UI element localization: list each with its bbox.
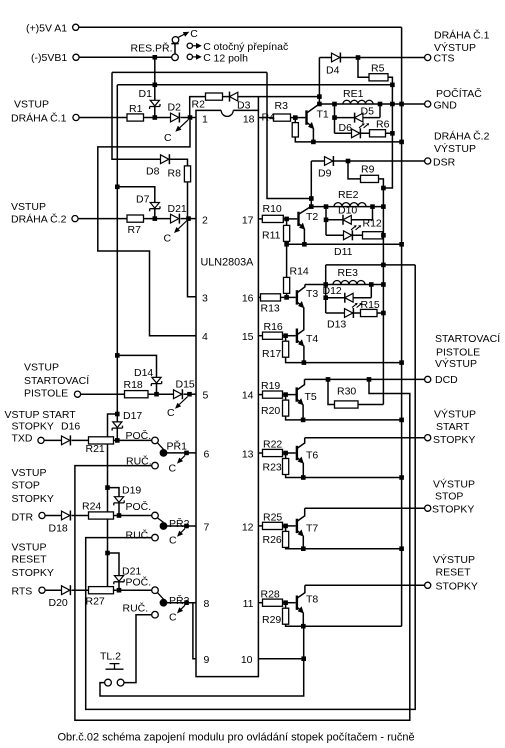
wire T8 emitter down (302, 613, 304, 627)
svg-text:DRÁHA Č.2: DRÁHA Č.2 (11, 213, 67, 226)
wire R4 bottom to emitter row (295, 137, 401, 142)
svg-text:D18: D18 (49, 523, 68, 535)
wire DSR output line (311, 160, 424, 162)
switch PR3 contact RUC (152, 611, 159, 618)
diode D10 (342, 215, 344, 225)
wire D8 branch from C-bus (112, 72, 161, 159)
svg-text:R26: R26 (263, 534, 282, 546)
svg-text:C: C (169, 535, 177, 547)
resistor R2 (206, 93, 223, 100)
terminal circle (+)5V A1 (73, 24, 79, 30)
resistor R17 (283, 341, 289, 357)
svg-text:14: 14 (242, 390, 254, 402)
node T5 emitter / row (301, 418, 306, 423)
wire D18 to R24 (72, 515, 89, 517)
node R22/R23 junction (283, 451, 288, 456)
wire R5 drop (358, 58, 369, 78)
node T2 collector / feedback bus (309, 196, 314, 201)
rotary switch arrow 1 (193, 45, 197, 47)
diode D16 (62, 436, 70, 445)
zener diode D21 (input row 8) (114, 576, 123, 582)
diode D2 (171, 113, 179, 122)
node D17 anode junction (115, 438, 120, 443)
wire T7 emitter down (302, 536, 304, 549)
terminal VSTUP DRAHA C.2 (72, 216, 78, 222)
svg-text:5: 5 (203, 390, 209, 402)
svg-text:STOP: STOP (435, 490, 463, 502)
svg-text:R18: R18 (124, 379, 143, 391)
node junction (-)5V / D1 branch (153, 55, 158, 60)
svg-text:STOP: STOP (12, 480, 40, 492)
svg-text:R19: R19 (261, 380, 280, 392)
transistor T1 collector (307, 105, 320, 113)
svg-text:1: 1 (202, 113, 208, 125)
svg-text:T4: T4 (306, 333, 318, 345)
node R25/R26 junction (283, 524, 288, 529)
diode D12 (344, 293, 346, 303)
wire R9 to bus x=383.4 (379, 179, 384, 405)
wire R17 top (285, 336, 287, 342)
resistor R24 (89, 512, 114, 519)
IC U1 notch (221, 110, 233, 116)
wire line A (C-bus top horizontal) (117, 84, 392, 86)
node pin10 junction (301, 656, 306, 661)
wire pin 12 row (258, 525, 262, 527)
node pin8 junction (184, 600, 189, 605)
wire R26 top (285, 526, 287, 532)
wire R17 bottom to emitter row (286, 357, 402, 362)
svg-text:D6: D6 (339, 122, 353, 134)
node RE3 coil left (323, 282, 328, 287)
wire R23 bottom to emitter row (286, 475, 402, 478)
svg-text:D20: D20 (49, 597, 68, 609)
wire PR2 common to pin 7 (164, 525, 197, 527)
svg-text:15: 15 (242, 331, 254, 343)
resistor R10 (262, 215, 283, 222)
svg-text:D17: D17 (123, 410, 142, 422)
terminal DCD (425, 376, 431, 382)
node T1 emitter / row (311, 140, 316, 145)
svg-text:VSTUP: VSTUP (12, 541, 47, 553)
wire R29 top (285, 603, 287, 609)
node R28/R29 junction (283, 600, 288, 605)
resistor R9 (361, 175, 379, 182)
terminal circle (-)5VB1 (73, 54, 79, 60)
switch PR1 contact POC (152, 437, 159, 444)
resistor R4 (292, 123, 298, 137)
wire D19 top jog (108, 488, 120, 497)
node D19 anode junction (117, 513, 122, 518)
wire RE1 right stub (D5 return) (379, 104, 381, 118)
node collector bus / D3 line (317, 94, 322, 99)
svg-text:D1: D1 (139, 88, 153, 100)
wire pin1-node route to pin 4 (98, 120, 196, 336)
wire STOP output line (305, 507, 425, 509)
transistor T7 collector (297, 508, 305, 521)
wire D10 row (326, 219, 373, 221)
svg-text:DTR: DTR (12, 512, 34, 524)
wire R30 left (328, 379, 335, 404)
svg-text:VÝSTUP: VÝSTUP (434, 142, 476, 155)
svg-text:12 polh: 12 polh (214, 52, 249, 64)
wire R20 bottom to emitter row (286, 416, 402, 420)
wire TL.2 left contact to pin 10 (bottom route) (100, 626, 304, 696)
svg-text:GND: GND (434, 99, 458, 111)
wire R22 to T6 base (283, 452, 296, 454)
svg-text:D2: D2 (168, 102, 182, 114)
svg-text:D15: D15 (176, 379, 195, 391)
svg-text:R20: R20 (261, 405, 280, 417)
node pin7 junction (184, 524, 189, 529)
wire D3 drop to pin 18 (257, 97, 259, 111)
node row4 / rail (399, 360, 404, 365)
svg-text:T8: T8 (306, 593, 318, 605)
svg-text:C: C (167, 407, 175, 419)
terminal DSR (425, 158, 431, 164)
svg-text:VSTUP: VSTUP (12, 467, 47, 479)
svg-text:D16: D16 (61, 421, 80, 433)
svg-text:otočný přepínač: otočný přepínač (214, 41, 289, 53)
svg-text:D19: D19 (122, 484, 141, 496)
rotary switch arrow 2 (193, 56, 197, 58)
wire terminal to R7 (78, 218, 127, 220)
svg-text:R22: R22 (263, 439, 282, 451)
svg-text:R21: R21 (86, 443, 105, 455)
node row5 / rail (399, 418, 404, 423)
transistor T6 (296, 446, 298, 460)
svg-text:R24: R24 (82, 500, 101, 512)
wire R8 down to pin 3 (188, 182, 197, 297)
wire RE2 left stub (325, 207, 327, 236)
diode D18 (62, 511, 70, 520)
node DCD / TL2 feedback (367, 377, 372, 382)
svg-text:R11: R11 (262, 230, 281, 242)
terminal VYSTUP STOP STOPKY (425, 505, 431, 511)
svg-text:R2: R2 (192, 99, 206, 111)
zener diode D17 (113, 422, 122, 428)
switch PR1 blade (157, 443, 163, 450)
svg-text:RTS: RTS (12, 586, 33, 598)
svg-text:PŘ1: PŘ1 (167, 439, 188, 452)
node T1 collector / RE1 coil (317, 102, 322, 107)
wire main +5V rail right vertical x=401.6 (401, 27, 403, 626)
resistor R11 (284, 225, 290, 241)
LED D6 (352, 129, 360, 138)
switch PR2 contact RUC (152, 534, 159, 541)
node C-bus / D17 branch (115, 412, 120, 417)
wire pin 14 row (258, 394, 262, 396)
svg-text:R7: R7 (128, 224, 142, 236)
node RE3 coil / bus383 (381, 282, 386, 287)
wire D5 row (335, 117, 381, 119)
wire RE3 feed line (326, 264, 416, 266)
switch PR2 common (160, 522, 168, 530)
transistor T6 collector (297, 438, 305, 449)
wire D13/R15 row (326, 312, 384, 314)
resistor R5 (369, 74, 388, 81)
wire D20 to R27 (72, 589, 89, 591)
wire GND/RE1 coil row (319, 103, 424, 105)
wire R11 top (286, 219, 288, 226)
node emitter row1 / rail (399, 140, 404, 145)
wire D21 to pin 2 (181, 218, 197, 220)
wire DTR to D18 (45, 515, 61, 517)
rotary switch contact 1 (187, 43, 192, 48)
wire pin 15 row (258, 335, 262, 337)
svg-text:C: C (203, 52, 211, 64)
wire R29 bottom to emitter row (286, 624, 402, 626)
svg-text:CTS: CTS (434, 52, 455, 64)
transistor T2 collector (299, 207, 312, 214)
svg-text:RESET: RESET (436, 566, 472, 578)
node RE2 box left (324, 204, 329, 209)
svg-text:VÝSTUP: VÝSTUP (434, 407, 476, 420)
transistor T5 collector (297, 379, 305, 390)
wire terminal to R18 (81, 393, 125, 395)
switch PR2 contact POC (152, 512, 159, 519)
wire DCD output line (305, 378, 425, 380)
svg-text:PISTOLE: PISTOLE (436, 346, 480, 358)
svg-text:STOPKY: STOPKY (12, 493, 54, 505)
wire RE3 left stub (325, 265, 327, 313)
svg-text:STOPKY: STOPKY (12, 421, 54, 433)
LED D11 (344, 231, 352, 240)
transistor T4 (296, 329, 298, 343)
switch PR1 contact RUC (152, 462, 159, 469)
svg-text:R14: R14 (290, 265, 309, 277)
svg-text:RE3: RE3 (338, 267, 359, 279)
node GND row / rail (399, 102, 404, 107)
transistor T5 emitter (297, 399, 302, 403)
wire R14 bottom (286, 293, 288, 297)
node T7 emitter / row (301, 546, 306, 551)
resistor R26 (283, 531, 289, 547)
svg-text:R8: R8 (168, 167, 182, 179)
switch-position arrow to C (179, 397, 187, 405)
resistor R25 (263, 522, 283, 529)
node C-bus / D19 branch (105, 485, 110, 490)
switch-position arrow to C (180, 120, 188, 128)
wire R9 drop (348, 161, 361, 179)
terminal CTS (425, 54, 431, 60)
svg-text:POČ.: POČ. (126, 429, 152, 442)
switch RES.PR. bottom contact (172, 54, 179, 61)
resistor R3 (274, 114, 291, 121)
switch RES.PR. top contact (172, 37, 179, 44)
wire R14 from row2 (286, 244, 288, 277)
node R11/R14/row junction (284, 242, 289, 247)
svg-text:R9: R9 (361, 164, 375, 176)
svg-text:ULN2803A: ULN2803A (201, 256, 255, 268)
wire R23 top (285, 453, 287, 459)
svg-text:D4: D4 (326, 64, 340, 76)
wire RE3 right stub (D12 return) (370, 285, 372, 298)
zener diode D7 (150, 203, 159, 209)
wire R27 to POC contact (114, 589, 152, 591)
diode D20 (62, 586, 70, 595)
svg-text:D3: D3 (237, 99, 251, 111)
terminal GND (425, 101, 431, 107)
svg-text:STOPKY: STOPKY (433, 434, 475, 446)
wire RUC3 to TL.2 right contact (124, 615, 152, 683)
svg-text:9: 9 (204, 654, 210, 666)
switch PR1 common (160, 449, 168, 457)
zener diode D19 (114, 497, 123, 503)
wire D7 branch (117, 187, 155, 203)
relay RE1 coil (343, 100, 373, 104)
node D10 row left (324, 218, 329, 223)
resistor R23 (283, 459, 289, 475)
rotary switch contact 2 (187, 54, 192, 59)
svg-text:DRÁHA Č.1: DRÁHA Č.1 (434, 28, 490, 41)
diode D8 (161, 155, 169, 164)
zener diode D14 (152, 377, 161, 383)
wire R3 to T1 base (291, 117, 306, 119)
svg-text:RES.PŘ.: RES.PŘ. (131, 42, 173, 55)
terminal VSTUP DRAHA C.1 (73, 114, 79, 120)
svg-text:DSR: DSR (433, 156, 456, 168)
wire R19 to T5 base (283, 394, 296, 396)
wire D21b top jog (108, 553, 120, 576)
svg-text:R23: R23 (263, 461, 282, 473)
svg-text:R3: R3 (275, 100, 289, 112)
wire RUC1 to DCD feedback loop (left bus x=74.9, bottom y=720.3, right x=409.8) (75, 379, 410, 720)
wire pin 9 to pin 8 row (193, 603, 196, 659)
svg-text:(-)5VB1: (-)5VB1 (31, 52, 67, 64)
svg-text:4: 4 (202, 331, 208, 343)
svg-text:R30: R30 (337, 386, 356, 398)
resistor R14 (284, 277, 290, 293)
pushbutton TL.2 actuator (106, 664, 124, 670)
resistor R21 (89, 437, 114, 444)
wire T4 emitter down (303, 346, 305, 363)
diode D3 (229, 92, 231, 102)
svg-text:STOPKY: STOPKY (432, 504, 474, 516)
wire R1 to D2 (144, 117, 171, 119)
transistor T3 emitter (297, 302, 302, 306)
wire R16 to T4 base (283, 335, 296, 337)
node RE3 line / bus383 (381, 263, 386, 268)
terminal TXD (38, 437, 44, 443)
node T4 emitter / row (302, 360, 307, 365)
svg-text:10: 10 (241, 654, 253, 666)
svg-text:STOPKY: STOPKY (436, 581, 478, 593)
node pin1 input junction (188, 115, 193, 120)
wire D8 to R8 (170, 159, 188, 166)
wire R24 to POC contact (114, 515, 152, 517)
svg-text:D9: D9 (318, 167, 332, 179)
wire RUC2 to main rail loop (left bus x=85.7, bottom y=709.4, right x=415.2 up to RE3 line) (86, 265, 416, 710)
svg-text:D10: D10 (338, 205, 357, 217)
wire RE3 coil row (305, 284, 384, 286)
node R16/R17 junction (283, 333, 288, 338)
wire C-bus vertical x=117.3 (108, 85, 118, 590)
resistor R22 (263, 449, 283, 456)
svg-text:R1: R1 (129, 103, 143, 115)
wire R10 to T2 base (283, 218, 297, 220)
svg-text:17: 17 (242, 215, 254, 227)
svg-text:RE2: RE2 (338, 189, 359, 201)
wire D6/R6 row (335, 132, 393, 134)
node C-bus / D7 branch (115, 185, 120, 190)
svg-text:12: 12 (242, 522, 254, 534)
wire TXD to D16 (44, 439, 61, 441)
svg-text:(+)5V A1: (+)5V A1 (26, 22, 67, 34)
svg-text:DRÁHA Č.2: DRÁHA Č.2 (434, 129, 490, 142)
transistor T1 (305, 110, 307, 124)
wire feedback bus x=267 to T2 collector (267, 72, 311, 198)
wire RE1 left stub (334, 104, 336, 133)
resistor R15 (361, 309, 378, 316)
node D4 / R5 junction (356, 55, 361, 60)
wire START output line (305, 437, 425, 439)
svg-text:PISTOLE: PISTOLE (24, 388, 68, 400)
wire RE2 right stub (D10 return) (372, 207, 374, 220)
svg-text:3: 3 (202, 292, 208, 304)
terminal VYSTUP START STOPKY (425, 435, 431, 441)
resistor R28 (263, 599, 283, 606)
svg-text:R6: R6 (376, 119, 390, 131)
svg-text:R10: R10 (263, 203, 282, 215)
transistor T8 emitter (297, 607, 302, 611)
svg-text:11: 11 (243, 598, 254, 610)
svg-text:C: C (190, 28, 198, 40)
resistor R6 (370, 130, 386, 137)
wire R26 bottom to emitter row (286, 547, 402, 548)
transistor T7 (296, 519, 298, 533)
wire pin 17 row (258, 218, 262, 220)
svg-text:D5: D5 (361, 106, 375, 118)
node row7 / rail (399, 546, 404, 551)
node D9 / R9 junction (346, 159, 351, 164)
switch RES.PR. wiper arrow to C (178, 34, 184, 37)
terminal VSTUP PISTOLE (74, 391, 80, 397)
svg-text:T6: T6 (306, 450, 318, 462)
diode D21 (171, 214, 179, 223)
wire T1 collector vertical to CTS line (318, 58, 320, 105)
resistor R8 (184, 166, 190, 182)
resistor R16 (263, 332, 283, 339)
node R3/R4 junction (293, 115, 298, 120)
svg-text:13: 13 (242, 448, 254, 460)
svg-text:R27: R27 (86, 595, 105, 607)
zener diode D1 (150, 100, 159, 106)
wire D16 to R21 (72, 439, 89, 441)
svg-text:VSTUP START: VSTUP START (5, 409, 77, 421)
terminal DTR (39, 512, 45, 518)
svg-text:T7: T7 (306, 523, 318, 535)
svg-text:C: C (164, 132, 172, 144)
resistor R19 (263, 391, 283, 398)
wire T3 emitter to T4 collector (298, 307, 304, 334)
node R18/D14 junction (154, 392, 159, 397)
node row2 / rail (399, 242, 404, 247)
svg-text:R29: R29 (262, 614, 281, 626)
switch-position arrow to C (181, 605, 185, 609)
node C-bus / D21b branch (105, 551, 110, 556)
svg-text:R15: R15 (361, 299, 380, 311)
svg-text:D7: D7 (136, 193, 150, 205)
switch-position arrow to C (181, 529, 185, 533)
node RE1 box right (378, 102, 383, 107)
wire T2 emitter down (303, 229, 305, 244)
svg-text:R5: R5 (371, 62, 385, 74)
svg-text:D8: D8 (146, 165, 160, 177)
svg-text:18: 18 (243, 113, 255, 125)
svg-text:R17: R17 (262, 348, 281, 360)
svg-text:POČ.: POČ. (126, 500, 152, 513)
svg-text:8: 8 (204, 598, 210, 610)
